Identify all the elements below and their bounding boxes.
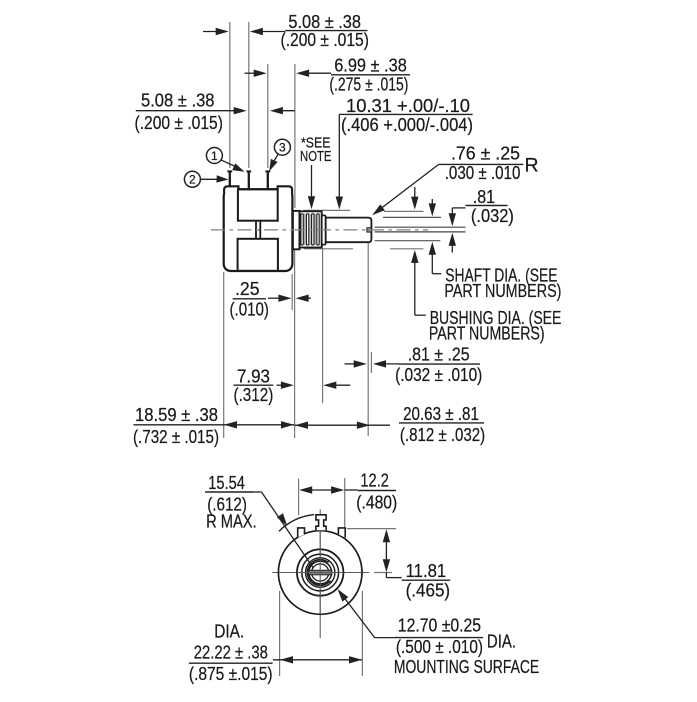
svg-text:(.010): (.010) <box>230 300 269 320</box>
ring hook upper <box>328 560 330 562</box>
dim line 5.08 top right <box>253 31 286 33</box>
body inner upper block <box>238 189 278 220</box>
shaft <box>326 218 372 243</box>
arrowhead .25 right <box>296 295 309 302</box>
thread root 3 <box>315 214 317 245</box>
rotor link left line <box>255 221 257 239</box>
svg-text:MOUNTING SURFACE: MOUNTING SURFACE <box>394 657 539 677</box>
arrowhead 5.08 top left <box>216 28 229 35</box>
mounting hole circle 12.70 dia <box>297 549 343 595</box>
svg-text:(.200 ± .015): (.200 ± .015) <box>135 113 223 133</box>
arrowhead bushing dia lower <box>411 250 418 263</box>
top left corner patch <box>222 185 238 194</box>
pin 1 <box>248 172 250 191</box>
dim 11.81 tail <box>385 572 387 577</box>
svg-text:DIA.: DIA. <box>214 622 244 642</box>
anti-rotation tab right <box>338 528 345 538</box>
thread root 2 <box>309 214 311 245</box>
extension line bushing top right <box>384 210 424 212</box>
extension line mounting surface lower <box>294 250 296 438</box>
extension line pin 3 <box>267 64 269 168</box>
extension line shaft top <box>383 216 441 218</box>
extension line thread end <box>322 249 324 403</box>
extension line bushing top left <box>304 209 351 211</box>
extension line pin 1 <box>248 22 250 168</box>
arrowhead 5.08 left b <box>270 107 283 114</box>
body inner lower block <box>238 239 278 271</box>
extension line pin 2 <box>229 22 231 168</box>
arrowhead .25 left <box>278 295 291 302</box>
mounting washer <box>293 211 300 249</box>
svg-text:1: 1 <box>211 149 218 163</box>
arrowhead 22.22 left <box>280 656 293 663</box>
leader 12.70 b <box>340 592 374 637</box>
leader 15.54 b <box>262 492 314 568</box>
arrowhead circle 3 <box>269 159 277 171</box>
dim line 6.99 right <box>299 72 332 74</box>
svg-text:NOTE: NOTE <box>300 148 332 165</box>
extension line slot bottom <box>367 234 369 436</box>
svg-text:(.500 ± .010): (.500 ± .010) <box>396 637 483 657</box>
potentiometer body <box>224 189 293 271</box>
shaft dia leader upper <box>431 199 433 206</box>
shaft face circle <box>312 564 329 581</box>
fraction line 20.63 <box>399 422 484 424</box>
dim line .25 <box>268 297 279 299</box>
arrowhead shaft dia lower <box>429 242 436 255</box>
fraction line 12.2 <box>358 490 396 492</box>
arrowhead see note <box>308 196 315 209</box>
R max swing arc <box>279 515 314 532</box>
svg-text:(.032): (.032) <box>471 206 514 226</box>
arrowhead .76 R <box>372 204 385 215</box>
svg-text:(.812 ± .032): (.812 ± .032) <box>400 425 485 445</box>
leader .81 lower <box>451 244 453 253</box>
center lug mask <box>316 515 326 531</box>
pin 3 tip <box>265 170 270 172</box>
dim line 5.08 left a <box>220 110 244 112</box>
dim line 18.59 <box>134 424 295 426</box>
circle terminal 1 <box>206 148 222 164</box>
circle terminal 2 <box>184 171 200 187</box>
svg-text:(.480): (.480) <box>356 492 397 512</box>
arrowhead 11.81 top <box>383 529 390 542</box>
svg-text:R: R <box>525 154 539 176</box>
arrowhead 10.31 <box>336 197 343 210</box>
arrowhead 6.99 right <box>296 70 309 77</box>
thread root 1 <box>304 214 306 245</box>
extension 12.2 right <box>344 478 346 527</box>
fraction line 7.93 <box>234 384 274 386</box>
pin 2 tip <box>227 170 232 172</box>
svg-text:R MAX.: R MAX. <box>206 512 257 532</box>
bracket .81 <box>452 207 465 209</box>
extension 22.22 left <box>279 591 281 676</box>
shaft circle <box>309 561 332 584</box>
dim line 6.99 left stub <box>245 72 256 74</box>
arrowhead 5.08 left a <box>234 107 247 114</box>
horizontal centerline over slot <box>297 572 344 574</box>
svg-text:(.312): (.312) <box>234 385 274 405</box>
extension line slot lower <box>375 231 466 233</box>
body top left lid <box>224 186 238 194</box>
fraction line .81 slot <box>466 205 508 207</box>
arrowhead .81 depth right <box>373 360 386 367</box>
screwdriver slot <box>309 570 332 575</box>
arrowhead 18.59 left <box>224 421 237 428</box>
svg-text:15.54: 15.54 <box>208 473 245 493</box>
fraction line 6.99 <box>331 74 410 76</box>
dim line .81 depth right <box>376 363 399 365</box>
front view vertical centerline <box>319 509 321 638</box>
svg-text:.76 ± .25: .76 ± .25 <box>451 144 520 164</box>
circle terminal 3 <box>274 139 290 155</box>
extension 11.81 top <box>347 528 396 530</box>
arrowhead 12.70 <box>338 589 349 602</box>
dim line .81 depth left <box>345 363 355 365</box>
svg-text:11.81: 11.81 <box>406 561 447 581</box>
svg-text:PART NUMBERS): PART NUMBERS) <box>444 281 561 301</box>
svg-text:22.22 ± .38: 22.22 ± .38 <box>194 642 268 662</box>
extension line slot upper <box>375 226 466 228</box>
extension line bushing bottom left <box>304 248 353 250</box>
svg-text:.030 ± .010: .030 ± .010 <box>445 163 521 183</box>
retaining ring arc <box>307 560 329 586</box>
body top right lid <box>278 186 293 194</box>
horizontal centerline inner <box>279 572 362 574</box>
svg-text:(.465): (.465) <box>406 581 451 601</box>
bushing end face <box>322 215 326 244</box>
fraction line 22.22 <box>189 662 273 664</box>
center locating lug <box>316 515 326 531</box>
thread crest 1 <box>301 214 303 245</box>
bushing circle <box>306 558 335 587</box>
front view horizontal centerline <box>272 572 369 574</box>
svg-text:(.732 ± .015): (.732 ± .015) <box>133 427 219 447</box>
fraction line 15.54 <box>205 491 253 493</box>
svg-text:(.406 +.000/-.004): (.406 +.000/-.004) <box>341 115 473 135</box>
svg-text:.25: .25 <box>235 279 260 299</box>
svg-text:3: 3 <box>279 141 286 155</box>
svg-text:PART NUMBERS): PART NUMBERS) <box>429 323 545 343</box>
svg-text:12.2: 12.2 <box>360 471 389 491</box>
pin 2 <box>229 172 231 188</box>
extension 22.22 right <box>361 591 363 676</box>
extension 12.2 left <box>298 479 300 516</box>
svg-text:(.275 ± .015): (.275 ± .015) <box>329 74 408 94</box>
dim line 11.81 <box>385 536 387 566</box>
svg-text:.81 ± .25: .81 ± .25 <box>408 344 470 364</box>
leader 10.31 vertical <box>338 114 340 198</box>
arrowhead 5.08 top right <box>250 28 263 35</box>
arrowhead circle 1 <box>232 163 244 171</box>
arrowhead 15.54 <box>277 513 287 526</box>
vertical centerline inner <box>319 531 321 614</box>
thread crest 4 <box>317 214 319 245</box>
extension line body right edge <box>291 274 293 310</box>
dim line 20.63 <box>295 424 390 426</box>
arrowhead 18.59 right <box>281 421 294 428</box>
extension line mounting surface upper <box>294 64 296 208</box>
arrowhead bushing dia upper <box>411 197 418 210</box>
washer circle <box>302 554 339 591</box>
leader circle 3 <box>274 155 278 162</box>
rotor link right line <box>259 221 261 239</box>
dim line 12.2 <box>302 489 342 491</box>
svg-text:5.08 ± .38: 5.08 ± .38 <box>288 12 361 32</box>
svg-text:18.59 ± .38: 18.59 ± .38 <box>135 405 218 425</box>
pin 1 tip <box>246 170 251 172</box>
svg-text:6.99 ± .38: 6.99 ± .38 <box>334 55 407 75</box>
dim line .25 right <box>298 297 311 299</box>
dim line 7.93 left <box>277 384 282 386</box>
svg-text:10.31 +.00/-.10: 10.31 +.00/-.10 <box>346 96 470 116</box>
dim line 7.93 right <box>326 384 351 386</box>
extension line bushing bottom right <box>390 248 424 250</box>
fraction line .76 <box>439 163 524 165</box>
leader 15.54 a <box>254 491 262 493</box>
dim line 22.22 <box>273 659 362 661</box>
svg-text:2: 2 <box>189 173 196 187</box>
arrowhead .81 upper <box>449 213 456 226</box>
svg-text:20.63 ± .81: 20.63 ± .81 <box>403 404 479 424</box>
leader 12.70 a <box>375 637 394 639</box>
shaft dia bracket <box>432 273 441 275</box>
leader circle 1 <box>222 160 236 166</box>
svg-text:DIA.: DIA. <box>487 632 516 652</box>
extension line body left edge <box>223 272 225 438</box>
svg-text:5.08 ± .38: 5.08 ± .38 <box>141 91 215 111</box>
fraction line .81 depth <box>399 363 481 365</box>
bushing dia leader upper <box>414 187 416 199</box>
svg-text:(.032 ± .010): (.032 ± .010) <box>395 365 482 385</box>
arrowhead 11.81 bottom <box>383 559 390 572</box>
svg-text:7.93: 7.93 <box>237 366 270 386</box>
dim 11.81 elbow <box>386 577 401 579</box>
bushing threads outline <box>300 211 322 247</box>
svg-text:.81: .81 <box>473 187 495 207</box>
fraction line 5.08 top <box>285 30 367 32</box>
dim line 5.08 top left <box>203 31 226 33</box>
arrowhead 7.93 right <box>323 382 336 389</box>
top right corner patch <box>278 185 293 194</box>
bushing dia bracket <box>415 314 426 316</box>
svg-text:12.70 ±0.25: 12.70 ±0.25 <box>398 616 481 636</box>
pin 3 <box>267 172 269 191</box>
arrowhead circle 2 <box>216 175 228 182</box>
arrowhead .81 depth left <box>354 360 367 367</box>
fraction line .25 <box>233 298 266 300</box>
extension line shaft bottom <box>375 240 441 242</box>
dim line 12.2 stub <box>345 489 358 491</box>
centerline side view <box>211 229 428 231</box>
shaft slot notch <box>367 228 372 232</box>
ring hook lower <box>330 581 332 583</box>
fraction line 12.70 <box>394 637 483 639</box>
right tab mask <box>338 528 345 538</box>
anti-rotation tab left <box>298 528 305 538</box>
fraction line 5.08 left <box>136 110 221 112</box>
leader circle 2 <box>201 178 218 180</box>
arrowhead 6.99 left <box>254 70 267 77</box>
left tab mask <box>298 528 305 538</box>
svg-text:(.200 ± .015): (.200 ± .015) <box>281 30 369 50</box>
see note leader <box>311 165 313 199</box>
vertical centerline over slot <box>319 531 321 614</box>
arrowhead .81 lower <box>449 233 456 246</box>
arrowhead 20.63 left <box>295 422 308 429</box>
arrowhead shaft dia upper <box>429 203 436 216</box>
extension line shaft end face <box>370 352 372 373</box>
arrowhead 22.22 right <box>349 656 362 663</box>
fraction line 11.81 <box>402 579 451 581</box>
leader .76 R <box>375 164 438 212</box>
extension 11.81 bottom <box>374 572 392 574</box>
svg-text:(.875 ±.015): (.875 ±.015) <box>189 664 273 684</box>
thread crest 2 <box>306 214 308 245</box>
arrowhead 12.2 right <box>331 486 344 493</box>
leader .81 upper <box>451 208 453 215</box>
thread crest 3 <box>312 214 314 245</box>
dim line 5.08 left b <box>273 110 295 112</box>
bushing dia leader lower <box>414 260 416 315</box>
fraction line 10.31 <box>345 113 473 115</box>
body circle <box>278 531 362 615</box>
bracket 10.31 <box>339 113 345 115</box>
arrowhead 7.93 left <box>281 382 294 389</box>
arrowhead 12.2 left <box>299 486 312 493</box>
shaft dia leader lower <box>431 252 433 274</box>
arrowhead 20.63 right <box>357 422 370 429</box>
